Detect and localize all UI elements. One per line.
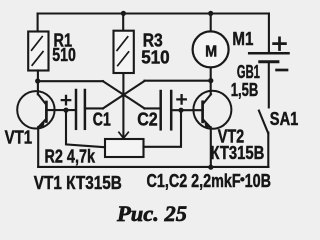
wire VT2 collector lead (210, 81, 212, 95)
motor M1 (193, 31, 229, 67)
capacitor C1 (76, 90, 85, 129)
bullet separator dot (240, 177, 244, 181)
svg-text:C1: C1 (93, 109, 111, 129)
node VT1 collector junction (35, 78, 40, 83)
wire R1 top lead (37, 14, 39, 32)
wire VT2 emitter lead (210, 127, 212, 167)
wire C2 right lead to VT2 base (173, 109, 202, 111)
resistor R3 (114, 31, 134, 73)
potentiometer R2 wiper arrowhead (119, 132, 128, 138)
capacitor C2 (161, 91, 172, 129)
node VT2 collector junction (208, 78, 213, 83)
wire VT1 emitter lead (37, 127, 39, 167)
svg-text:C1,C2 2,2mkF 10B: C1,C2 2,2mkF 10B (147, 171, 272, 191)
node VT2 emitter junction (208, 165, 213, 170)
wire diagonal to C2 left plate (145, 107, 161, 109)
wire top rail (38, 12, 269, 14)
wire M1 top lead (210, 14, 212, 32)
wire R1 bottom lead to VT1 collector (37, 71, 39, 95)
node VT2 base junction (178, 108, 183, 113)
svg-text:C2: C2 (137, 109, 158, 129)
svg-text:510: 510 (52, 45, 76, 65)
battery GB1 (249, 53, 288, 62)
wire R2 right lead to VT2 base (144, 110, 182, 147)
wire battery minus lead (268, 64, 270, 108)
wire VT1 collector to diagonal (38, 80, 103, 82)
wire battery top lead (268, 14, 270, 53)
wire diagonal VT1-collector to C2 (103, 81, 145, 108)
wire VT1 base lead (48, 109, 75, 111)
wire SA1 bottom lead (267, 133, 269, 167)
node VT1 base junction (63, 108, 68, 113)
wire C1 to diagonal (86, 107, 103, 109)
potentiometer R2 (105, 139, 144, 157)
wire diagonal C1 to VT2-collector rail (103, 81, 145, 108)
battery plus sign (274, 38, 286, 50)
switch SA1 lever (259, 111, 268, 133)
svg-text:R2 4,7k: R2 4,7k (45, 147, 96, 167)
resistor R1 (28, 32, 48, 71)
node M1 top junction (208, 11, 213, 16)
polarity plus C1 (62, 96, 70, 104)
svg-text:1,5B: 1,5B (231, 80, 258, 100)
svg-text:Рис. 25: Рис. 25 (116, 201, 187, 226)
svg-text:VT1 КТ315В: VT1 КТ315В (34, 173, 122, 193)
svg-text:GB1: GB1 (237, 62, 260, 82)
transistor VT1 (17, 91, 54, 128)
svg-text:КТ315В: КТ315В (210, 143, 264, 163)
svg-text:SA1: SA1 (270, 109, 299, 129)
transistor VT2 (193, 91, 231, 129)
wire M1 bottom lead (210, 68, 212, 81)
wire R2 left lead to VT1 base (66, 110, 105, 147)
svg-text:M1: M1 (232, 29, 253, 49)
node R3 top junction (121, 11, 126, 16)
polarity plus C2 (177, 95, 185, 103)
svg-text:VT1: VT1 (5, 127, 32, 147)
battery minus sign (277, 69, 287, 72)
wire R3 top lead (122, 14, 124, 31)
wire bottom rail (38, 166, 268, 168)
svg-text:510: 510 (141, 47, 170, 67)
wire R3 bottom lead to R2 wiper (122, 73, 124, 138)
wire diagonal to VT2 collector node (145, 80, 211, 82)
svg-text:M: M (205, 44, 217, 61)
